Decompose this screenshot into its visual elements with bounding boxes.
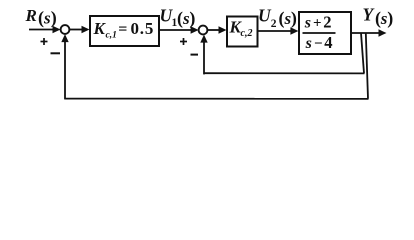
svg-text:=: = bbox=[118, 21, 127, 38]
node U_2(s) label bbox=[258, 6, 297, 30]
node Y(s) output label bbox=[363, 5, 394, 30]
wire block K_c,2 to plant block bbox=[258, 27, 299, 34]
svg-text:c,1: c,1 bbox=[106, 31, 117, 41]
wire S2 to block K_c,2 bbox=[208, 26, 227, 33]
S2 minus sign bbox=[191, 54, 199, 56]
node R(s) input label bbox=[25, 6, 57, 29]
wire outer feedback tap vertical bbox=[366, 33, 368, 99]
svg-text:c,2: c,2 bbox=[241, 28, 253, 39]
S1 plus sign bbox=[41, 38, 48, 45]
summing junction S1 bbox=[61, 25, 70, 34]
block plant (s+2)/(s-4) bbox=[299, 12, 351, 54]
wire S1 to block K_c,1 bbox=[70, 26, 90, 33]
block K_c,1 = 0.5 controller bbox=[90, 16, 159, 46]
wire inner feedback up into S2 with arrow bbox=[200, 35, 207, 75]
wire outer feedback up into S1 with arrow bbox=[61, 34, 68, 99]
block K_c,2 controller bbox=[227, 17, 258, 47]
svg-text:Y: Y bbox=[363, 5, 376, 25]
summing junction S2 bbox=[199, 26, 208, 35]
node U_1(s) label bbox=[160, 6, 196, 30]
svg-text:4: 4 bbox=[324, 33, 332, 52]
svg-text:s: s bbox=[304, 15, 311, 32]
svg-text:): ) bbox=[51, 8, 57, 29]
svg-text:2: 2 bbox=[271, 18, 277, 30]
wire inner feedback tap vertical bbox=[361, 33, 364, 73]
wire inner feedback bottom horizontal bbox=[204, 72, 365, 74]
svg-text:): ) bbox=[189, 8, 195, 29]
S1 minus sign bbox=[51, 52, 61, 54]
svg-text:): ) bbox=[291, 8, 297, 29]
S2 plus sign bbox=[180, 38, 187, 45]
wire block K_c,1 to summer S2 bbox=[159, 26, 199, 33]
svg-text:s: s bbox=[305, 35, 312, 52]
svg-text:K: K bbox=[93, 19, 107, 38]
svg-text:R: R bbox=[25, 6, 37, 25]
wire output arrow Y bbox=[351, 29, 387, 36]
svg-text:2: 2 bbox=[323, 13, 331, 32]
wire outer feedback bottom horizontal bbox=[65, 98, 369, 100]
svg-text:−: − bbox=[314, 36, 323, 52]
svg-text:0.5: 0.5 bbox=[131, 19, 155, 38]
svg-text:+: + bbox=[313, 16, 322, 32]
svg-text:): ) bbox=[387, 8, 393, 29]
wire input arrow into summer S1 bbox=[29, 26, 61, 33]
